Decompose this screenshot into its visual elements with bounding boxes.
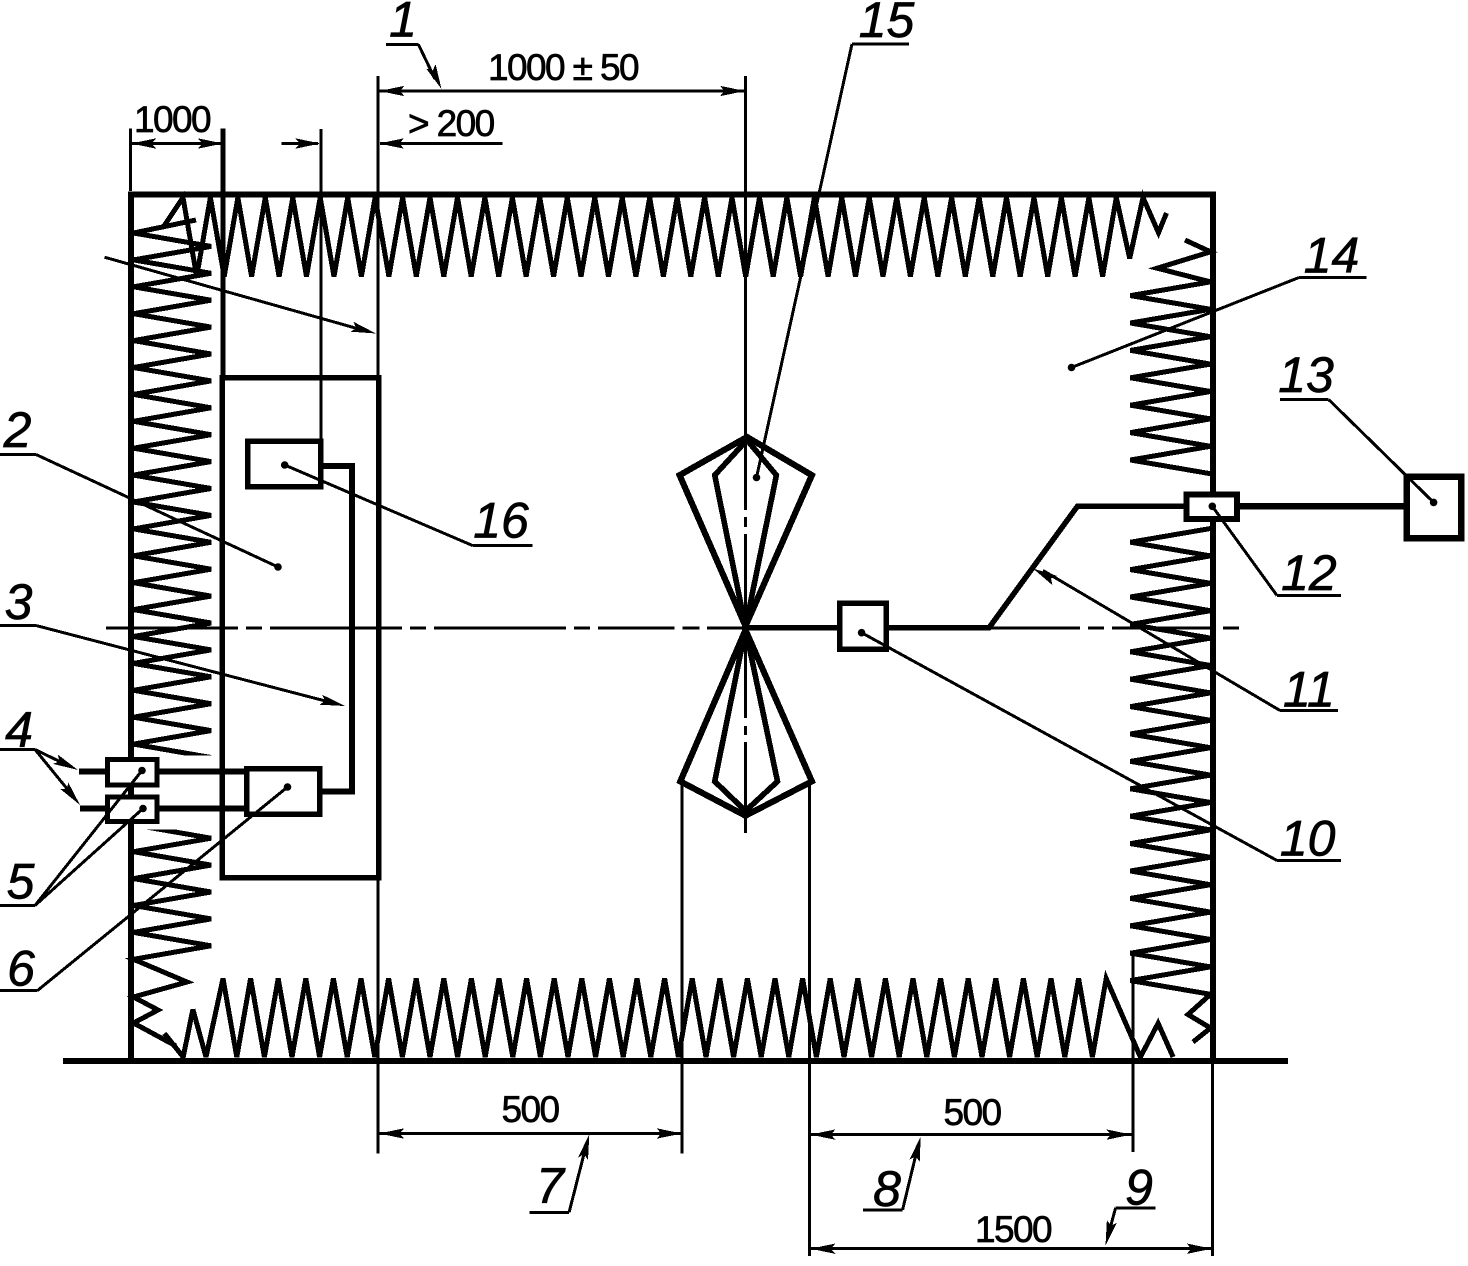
dimension line 1500: [810, 1247, 1213, 1250]
white clearance behind EUT cable feedthrough area: [134, 756, 220, 830]
extension line right wall below floor: [1211, 1064, 1214, 1256]
box 16 (unit on EUT): [248, 441, 321, 487]
biconical antenna upper cone outer: [680, 437, 812, 626]
biconical antenna upper cone inner: [715, 440, 777, 627]
chamber left wall: [128, 192, 134, 1060]
svg-text:500: 500: [502, 1089, 560, 1130]
box 13 (measuring receiver): [1407, 477, 1462, 539]
vertical center line through antenna: [744, 76, 747, 833]
svg-text:500: 500: [944, 1092, 1002, 1133]
extension line antenna left end x=682: [681, 784, 684, 1153]
wire stub B outside wall: [80, 806, 106, 812]
absorber lining right wall lower run: [1131, 529, 1211, 1043]
dimension line 500 (right span): [810, 1133, 1132, 1136]
cable antenna feed to box 10: [748, 625, 837, 631]
wire from box16 down to box6: [323, 466, 353, 791]
biconical antenna lower cone outer: [680, 630, 812, 816]
wall feedthrough box A (item 4/5): [108, 760, 158, 786]
biconical antenna lower cone inner: [715, 629, 778, 811]
dimension >200 left arrow tail: [281, 142, 318, 145]
wall feedthrough box B (item 4/5): [108, 797, 158, 822]
svg-text:3: 3: [5, 574, 33, 630]
arrowheads of 1000 dimension: [131, 138, 156, 148]
svg-text:13: 13: [1278, 347, 1334, 403]
svg-text:10: 10: [1280, 811, 1336, 867]
wall feedthrough box 12: [1187, 495, 1238, 520]
arrowheads of 500 left dimension: [379, 1128, 404, 1138]
EUT boundary rectangle (item 2): [222, 378, 379, 878]
dimension line 1000+-50: [379, 90, 746, 93]
extension line left wall (1000 dim): [129, 128, 132, 191]
svg-text:15: 15: [859, 0, 915, 48]
arrowheads of 1500 dimension: [810, 1244, 835, 1254]
absorber lining right wall upper run: [1131, 240, 1211, 474]
arrowheads of 500 right dimension: [810, 1129, 835, 1139]
svg-text:1500: 1500: [975, 1209, 1052, 1250]
absorber lining bottom (floor): [164, 979, 1173, 1058]
svg-text:16: 16: [473, 493, 529, 549]
extension line x=321 (>200 dim to box 16): [319, 129, 322, 439]
svg-text:12: 12: [1281, 545, 1337, 601]
absorber lining top wall: [164, 198, 1167, 277]
arrowheads of >200 dimension: [295, 138, 320, 148]
wire stub A outside wall: [79, 769, 106, 775]
chamber right wall: [1210, 192, 1216, 1060]
extension line absorber tips x=1133: [1132, 955, 1135, 1152]
ground floor line: [63, 1058, 1288, 1064]
svg-text:7: 7: [536, 1158, 566, 1214]
svg-text:1: 1: [389, 0, 417, 48]
dimension line 500 (left span): [379, 1132, 683, 1135]
absorber lining left wall: [134, 220, 212, 1046]
svg-text:2: 2: [3, 402, 32, 458]
wire wall box A to box 6: [159, 769, 246, 775]
dimension >200 right arrow tail: [380, 142, 503, 145]
horizontal center line (dash-dot axis): [106, 626, 1239, 629]
svg-text:1000: 1000: [134, 99, 211, 140]
arrowheads of 1000+-50 dimension: [380, 86, 405, 96]
svg-text:11: 11: [1283, 661, 1335, 717]
extension line EUT left edge up to 1000 dim: [221, 128, 226, 377]
extension line test-area boundary x=378: [376, 76, 379, 1154]
cable box 10 to wall feedthrough 12: [889, 506, 1184, 628]
box 6 (interface unit): [247, 769, 320, 815]
extension line antenna right end x=809.5: [808, 784, 811, 1256]
svg-text:14: 14: [1304, 228, 1360, 284]
dimension line 1000 (left): [131, 142, 224, 145]
svg-text:1000 ± 50: 1000 ± 50: [488, 47, 639, 88]
svg-text:> 200: > 200: [408, 103, 495, 144]
leader arrow to test-area boundary line: [105, 257, 367, 331]
svg-text:5: 5: [7, 854, 35, 910]
chamber top wall: [128, 192, 1216, 198]
svg-text:6: 6: [7, 941, 35, 997]
cable feedthrough 12 to box 13: [1240, 503, 1404, 510]
wire wall box B to box 6: [159, 806, 246, 812]
box 10 (balun): [840, 603, 887, 649]
